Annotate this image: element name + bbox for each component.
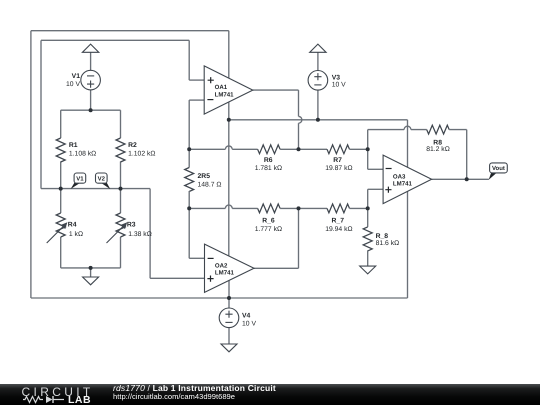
svg-text:R2: R2	[128, 142, 137, 149]
svg-text:81.6 kΩ: 81.6 kΩ	[376, 240, 400, 247]
svg-text:Vout: Vout	[492, 165, 505, 172]
svg-text:V1: V1	[72, 73, 81, 80]
svg-text:2R5: 2R5	[198, 173, 211, 180]
svg-text:R3: R3	[127, 222, 136, 229]
svg-text:LM741: LM741	[215, 270, 235, 277]
svg-text:OA2: OA2	[215, 262, 228, 269]
svg-text:81.2 kΩ: 81.2 kΩ	[426, 146, 450, 153]
svg-text:LM741: LM741	[393, 181, 413, 188]
svg-text:1.781 kΩ: 1.781 kΩ	[255, 165, 282, 172]
svg-text:10 V: 10 V	[66, 81, 80, 88]
svg-text:10 V: 10 V	[332, 82, 346, 89]
svg-text:R6: R6	[264, 157, 273, 164]
svg-text:1.38 kΩ: 1.38 kΩ	[128, 231, 152, 238]
svg-text:10 V: 10 V	[242, 321, 256, 328]
svg-text:V2: V2	[98, 176, 106, 183]
svg-text:V4: V4	[242, 313, 251, 320]
svg-text:R1: R1	[69, 142, 78, 149]
svg-text:R_8: R_8	[376, 233, 389, 240]
svg-text:1.777 kΩ: 1.777 kΩ	[255, 226, 282, 233]
svg-text:19.87 kΩ: 19.87 kΩ	[325, 165, 352, 172]
svg-text:R4: R4	[68, 222, 77, 229]
svg-text:V1: V1	[76, 176, 84, 183]
svg-text:R7: R7	[333, 157, 342, 164]
svg-text:R_7: R_7	[332, 218, 345, 225]
svg-text:V3: V3	[332, 74, 341, 81]
svg-text:1.108 kΩ: 1.108 kΩ	[69, 151, 96, 158]
svg-text:R_6: R_6	[262, 218, 275, 225]
svg-text:1.102 kΩ: 1.102 kΩ	[128, 151, 155, 158]
svg-text:1 kΩ: 1 kΩ	[69, 231, 83, 238]
svg-text:OA3: OA3	[393, 173, 406, 180]
svg-text:LM741: LM741	[215, 91, 235, 98]
svg-text:OA1: OA1	[215, 84, 228, 91]
svg-text:19.94 kΩ: 19.94 kΩ	[325, 226, 352, 233]
svg-text:148.7 Ω: 148.7 Ω	[198, 182, 222, 189]
